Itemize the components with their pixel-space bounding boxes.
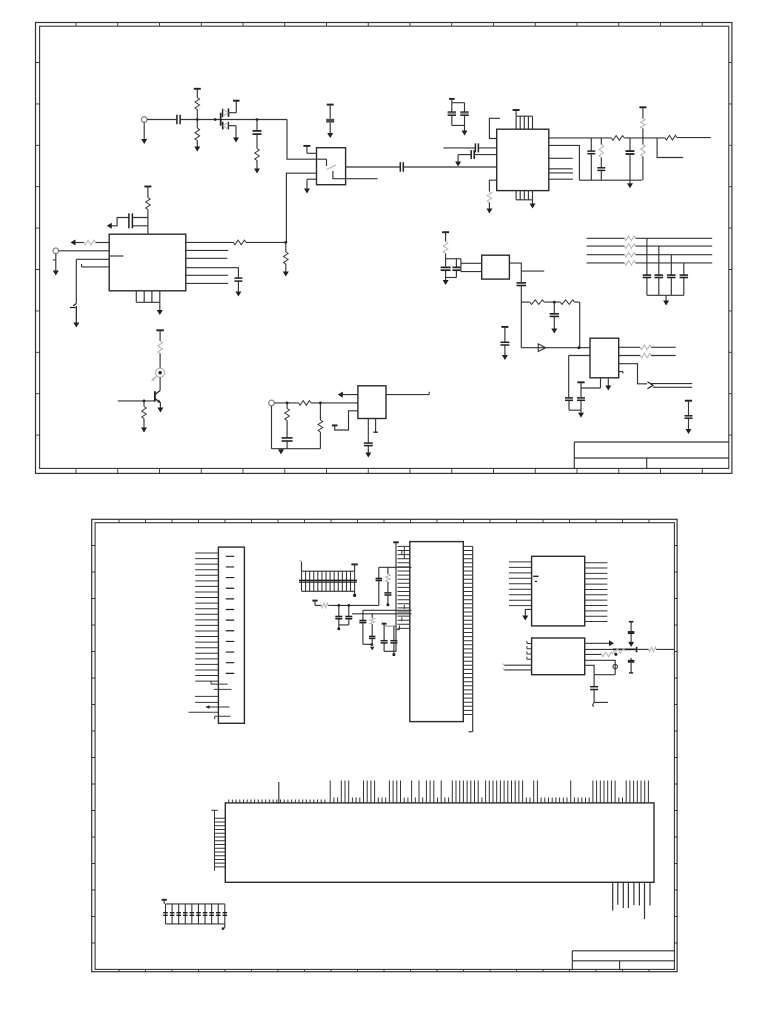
buffer triangle [538, 344, 546, 352]
power flag crystal bias [442, 231, 449, 233]
U8 bottom-left resistor R23 [489, 180, 496, 191]
U8 input wire with cap C24 [458, 154, 471, 156]
bus cap ground rail [647, 294, 684, 296]
net1 cap C25 [590, 138, 592, 151]
cap C30 column [378, 567, 380, 578]
U7 ground pin [607, 378, 609, 386]
ESD dual diode D1 [214, 118, 217, 121]
switch symbol inside U2 [317, 158, 327, 160]
crystal Y1 wires [460, 259, 462, 272]
U8 top-left bent wire [489, 118, 500, 138]
wire U2 aux pin [333, 171, 378, 179]
U1 right pin E stub [186, 274, 228, 276]
resistor R29 on rail A [315, 604, 321, 606]
U6 cap C8 to ground [367, 419, 369, 443]
U7 antenna pin [619, 364, 647, 384]
power flag + caps C34 C35 [382, 623, 387, 625]
rail C to U3 [352, 613, 412, 615]
ground pin U2 [307, 178, 317, 180]
resistor R14 [443, 242, 448, 254]
bus line 2 with resistor R20 [587, 245, 625, 247]
U5 left tick pins [527, 641, 532, 659]
net1 resistor R26 + cap C26 [600, 138, 602, 145]
pin marker inside U1 [109, 255, 123, 257]
diode D1 upper lead to power [229, 112, 237, 114]
wire U1 pin down net [76, 258, 109, 260]
U1 right pin C stub [186, 257, 228, 259]
U5 pin loop with crystal [585, 660, 616, 674]
caps C28 C29 pair [338, 605, 340, 616]
capacitor C2 to ground [256, 118, 259, 121]
net1 cap C27 [629, 138, 631, 151]
U5 pin to cap C37 [585, 665, 594, 686]
bus cap C19 [670, 255, 672, 275]
rail B to U3 [363, 609, 412, 611]
capacitor C1 series [176, 115, 178, 125]
IC U4 [532, 556, 585, 626]
U8 right net1 resistors R24 R25 [549, 137, 612, 139]
resistor R6 with arrow [95, 242, 109, 244]
IC U3 main processor [410, 542, 464, 722]
U6 enable tie [332, 424, 338, 426]
resistor R5 above U1 [146, 198, 151, 210]
antenna connector [648, 382, 654, 389]
RC filter resistors R15 R16 [521, 301, 530, 303]
bus cap C17 [646, 238, 648, 274]
U5 right arrow pin [585, 642, 611, 644]
U4 left pins [509, 562, 532, 606]
LED D2 [156, 368, 165, 377]
U4 right pins [585, 563, 608, 622]
bypass cap C4 column [327, 104, 334, 106]
U1 right pin B stub [186, 249, 228, 251]
crystal output wire [509, 263, 521, 282]
header H2 cap array [166, 904, 225, 924]
cap C32 column [362, 610, 364, 620]
U8 top comb power [516, 116, 532, 129]
IC U8 transceiver [497, 129, 549, 190]
net1 hook down [657, 138, 683, 158]
U5 pin resistor R32 [585, 653, 602, 655]
U3 left pin brackets [396, 546, 404, 629]
header H1 ladder [302, 571, 355, 591]
U1 right pin A with resistor R7 [186, 241, 234, 243]
U5 net chain with cap C36 [585, 648, 613, 650]
power column R27 R28 [639, 106, 646, 108]
J5 bottom pins [613, 882, 650, 919]
connector J5 edge card [225, 803, 654, 882]
sheet 2 border frame [92, 519, 677, 971]
IC U6 regulator [358, 386, 386, 419]
U3 right pin rail [472, 546, 474, 731]
decoupling cap C13 [501, 326, 508, 328]
sheet 1 border frame [36, 23, 732, 474]
wire input net [147, 119, 176, 121]
diode D1 lower lead to ground [228, 125, 236, 127]
connector J4 lower pins [211, 681, 228, 684]
IC U1 controller [109, 234, 186, 291]
U7 right resistors R17 R18 [619, 346, 641, 348]
U5 input wires [504, 664, 531, 666]
base wire Q1 [118, 400, 155, 402]
resistor R10 base pulldown [143, 401, 145, 407]
U3 left pins [398, 546, 410, 628]
U4 bottom-left bent pin [525, 609, 531, 615]
cap stub C38 upper [630, 622, 632, 632]
resistor R4 below C2 [256, 135, 258, 149]
bus cap C18 [658, 246, 660, 274]
U1 right pin F stub [186, 282, 228, 284]
U1 ground comb [136, 291, 160, 303]
sheet 1 title block [574, 442, 729, 468]
sheet 2 title block [572, 951, 674, 970]
header H1 right post power [351, 563, 358, 565]
feedback capacitor C5 [128, 213, 130, 228]
bus cap C20 [683, 263, 685, 275]
capacitor C3 series [399, 162, 401, 172]
power flag above U1 [144, 186, 151, 188]
U8 input wire with cap C23 [444, 147, 475, 149]
ground below terminal J2 [55, 254, 57, 271]
terminal J_in [141, 117, 147, 123]
IC U7 RF chip [590, 338, 619, 378]
crystal load caps C9 C10 [446, 258, 461, 260]
resistor R8 to ground [285, 242, 287, 252]
power flag VCC R2 [194, 88, 201, 90]
connector J4 inner pads [226, 556, 234, 673]
crystal Y1 [482, 255, 510, 279]
bus line 4 with resistor R22 [587, 262, 625, 264]
U6 output wire [386, 394, 429, 396]
ferrite/jog symbol [70, 304, 76, 323]
net1 bottom rail + ground [549, 145, 642, 180]
header H1 mid rails [299, 579, 357, 581]
IC U2 load switch [317, 148, 346, 185]
wire U2 output [346, 166, 400, 168]
bus line 1 with resistor R19 [587, 237, 625, 239]
terminal J3 circle [269, 400, 275, 406]
header H2 bottom hook [224, 924, 226, 928]
U3 right pins [463, 546, 472, 714]
U6 pin stub gnd bar [375, 419, 377, 432]
caps C14 C15 under U7 [565, 397, 573, 399]
capacitor C12 to ground [553, 302, 555, 313]
wire U2 pin3 net down [286, 173, 316, 242]
caps C21 C22 parallel pair [449, 98, 455, 100]
terminal J2 circle [53, 248, 59, 254]
resistor R2 pullup [195, 98, 200, 110]
bottom rail + ground [272, 406, 321, 449]
U8 right stubs [549, 157, 573, 159]
wire to U2 pin2 [287, 120, 317, 160]
connector J4 [218, 547, 244, 723]
connector J4 pins [195, 553, 218, 681]
wire U1 pin stub [82, 266, 110, 268]
resistor R12 shunt + cap C7 [286, 403, 288, 409]
resistor R13 shunt [319, 403, 321, 420]
node junction R2 top [196, 118, 199, 121]
resistor R30 + cap C31 column [387, 567, 389, 574]
U7 left pin2 down [569, 355, 590, 357]
oscillator rail to U7 [521, 302, 590, 348]
header H2 power flag [162, 899, 167, 901]
bus line 3 with resistor R21 [587, 254, 625, 256]
J5 top pins [229, 781, 649, 803]
power flag rail A [312, 600, 317, 602]
U7 small pin stub [619, 371, 623, 373]
capacitor C11 series [517, 282, 527, 284]
decoupling cap C16 [685, 400, 692, 402]
resistor R9 [158, 341, 163, 354]
U4 pin1 markers [533, 575, 539, 577]
J5 extra tall pin [278, 782, 280, 803]
J5 left ladder [211, 810, 225, 871]
power flag LED column [156, 329, 164, 331]
vertical bus net with power flag [393, 541, 399, 543]
resistor R3 pulldown [196, 120, 198, 129]
resistor R31 + cap C33 column [371, 614, 373, 618]
ground arrow below terminal [143, 122, 145, 139]
U1 right pin D to cap C6 [186, 268, 239, 278]
transistor Q1 NPN [154, 391, 156, 402]
cap stub C39 lower [630, 658, 632, 660]
U8 bottom comb ground [516, 191, 532, 200]
header H1 left post [301, 562, 303, 572]
IC U5 [532, 638, 585, 675]
U6 left arrow pin [341, 394, 358, 396]
resistor R11 series [299, 401, 312, 406]
power flag U2 pin1 [303, 145, 310, 147]
